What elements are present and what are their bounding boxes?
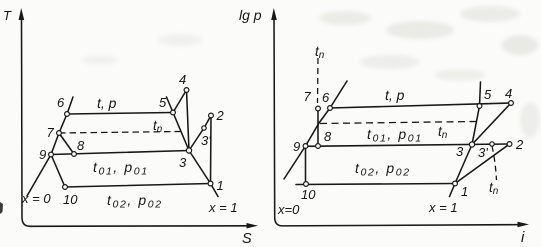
scan edge smudge <box>0 202 3 214</box>
dashed isotherm tn lower right <box>492 146 497 180</box>
compression line 3-4 <box>187 90 190 151</box>
svg-text:6: 6 <box>322 90 330 105</box>
node 5 right <box>477 104 482 109</box>
svg-text:3': 3' <box>201 133 211 148</box>
svg-text:3: 3 <box>179 155 187 170</box>
x=1 saturation line left <box>167 97 219 197</box>
node 10 right <box>304 182 309 187</box>
isotherm t01 line 9-8-3 <box>51 151 189 155</box>
compression line 1-2 right <box>455 144 510 184</box>
svg-text:t, p: t, p <box>385 87 405 103</box>
svg-text:1: 1 <box>461 184 468 199</box>
svg-text:10: 10 <box>63 192 78 207</box>
isotherm t01 line 9-8-3-2 right <box>306 144 510 146</box>
isotherm t,p line 6-5-4 right <box>330 103 511 108</box>
node 10 left <box>63 185 68 190</box>
throttle line 9-10 <box>51 155 65 188</box>
node 2 right <box>507 142 512 147</box>
svg-text:2: 2 <box>515 137 524 152</box>
x=1 saturation line right <box>450 82 481 197</box>
svg-text:7: 7 <box>304 89 312 104</box>
dashed isotherm tn left <box>59 132 181 134</box>
svg-text:9: 9 <box>293 139 300 154</box>
node 3 left <box>186 148 191 153</box>
svg-text:lg p: lg p <box>239 7 262 23</box>
node 7 left <box>57 131 62 136</box>
node 5 left <box>171 110 176 115</box>
dashed isotherm tn horizontal right <box>320 122 476 124</box>
throttle line 7-8 <box>59 133 74 154</box>
node 3 right <box>469 142 474 147</box>
throttle line 7-8 right <box>317 109 319 147</box>
node 1 right <box>453 181 458 186</box>
node 2 left <box>209 113 214 118</box>
svg-text:x = 1: x = 1 <box>428 200 458 215</box>
svg-text:x = 1: x = 1 <box>208 200 238 215</box>
svg-text:x = 0: x = 0 <box>21 191 51 206</box>
svg-text:8: 8 <box>324 129 332 144</box>
compression line 3-4 right <box>472 103 511 145</box>
node 9 right <box>303 144 308 149</box>
node 7 right <box>316 106 321 111</box>
node 4 left <box>184 88 189 93</box>
x=0 saturation line right <box>284 81 347 179</box>
svg-text:5: 5 <box>159 95 167 110</box>
desuperheat line 2-3p-3 <box>189 116 211 151</box>
isotherm t02 line 10-1 right <box>296 184 455 185</box>
svg-text:4: 4 <box>505 86 512 101</box>
node 3prime right <box>490 142 494 146</box>
svg-text:8: 8 <box>77 138 85 153</box>
compression line 1-2 <box>210 116 213 184</box>
dashed isotherm tn vertical right <box>317 58 320 103</box>
arrowhead i axis <box>518 222 530 228</box>
svg-text:10: 10 <box>301 187 316 202</box>
isotherm t,p line 6-5 <box>67 113 173 115</box>
throttle line 9-10 right <box>305 146 307 184</box>
svg-text:3: 3 <box>456 144 464 159</box>
svg-text:6: 6 <box>57 95 65 110</box>
arrowhead lg p axis <box>271 8 277 20</box>
axis lgp-i right diagram <box>274 16 522 226</box>
arrowhead T axis <box>19 8 25 20</box>
svg-text:S: S <box>242 231 252 247</box>
x=0 saturation line left <box>27 97 73 196</box>
svg-text:t, p: t, p <box>97 95 117 111</box>
svg-text:3': 3' <box>478 145 488 160</box>
svg-text:T: T <box>3 8 12 23</box>
axis T-S left diagram <box>22 16 252 226</box>
node 6 left <box>65 112 70 117</box>
svg-text:1: 1 <box>217 178 224 193</box>
node 8 right <box>316 144 321 149</box>
svg-text:5: 5 <box>484 87 492 102</box>
node 6 right <box>328 106 333 111</box>
svg-text:4: 4 <box>179 72 186 87</box>
desuperheat line 4-5 <box>173 90 187 113</box>
node 9 left <box>49 152 54 157</box>
svg-text:2: 2 <box>216 108 225 123</box>
arrowhead S axis <box>247 223 259 229</box>
node 8 left <box>72 152 77 157</box>
svg-text:7: 7 <box>47 125 55 140</box>
node 1 left <box>208 181 213 186</box>
node 4 right <box>509 101 514 106</box>
isotherm t02 line 10-1 <box>65 184 211 188</box>
svg-text:x=0: x=0 <box>277 202 300 217</box>
node 3prime left <box>202 126 206 130</box>
svg-text:9: 9 <box>39 147 46 162</box>
